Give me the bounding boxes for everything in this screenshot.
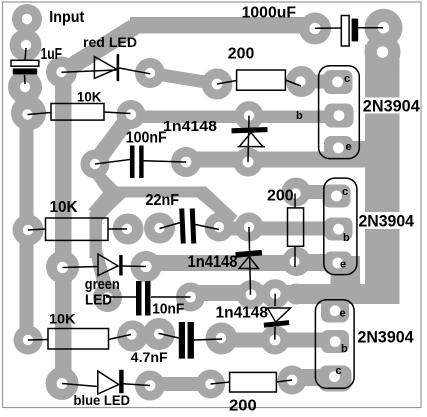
svg-text:1000uF: 1000uF <box>242 5 297 22</box>
svg-text:blue LED: blue LED <box>74 393 131 408</box>
svg-text:22nF: 22nF <box>146 192 180 209</box>
svg-text:red LED: red LED <box>83 35 137 50</box>
svg-text:10nF: 10nF <box>152 302 184 318</box>
svg-text:e: e <box>340 308 346 320</box>
svg-text:b: b <box>341 343 348 355</box>
svg-text:1n4148: 1n4148 <box>163 119 217 135</box>
svg-text:green: green <box>85 277 120 293</box>
svg-text:10K: 10K <box>77 90 102 105</box>
svg-text:1n4148: 1n4148 <box>188 252 238 271</box>
svg-text:c: c <box>344 73 350 85</box>
svg-text:200: 200 <box>229 398 257 415</box>
svg-text:1uF: 1uF <box>41 46 63 63</box>
svg-text:b: b <box>296 110 303 122</box>
svg-text:Input: Input <box>49 9 84 26</box>
svg-text:b: b <box>343 232 350 244</box>
svg-text:10K: 10K <box>49 311 76 326</box>
svg-text:LED: LED <box>85 293 112 309</box>
svg-text:1n4148: 1n4148 <box>216 305 269 322</box>
svg-text:100nF: 100nF <box>126 130 167 147</box>
svg-text:200: 200 <box>228 46 255 63</box>
svg-text:c: c <box>342 186 348 198</box>
svg-text:10K: 10K <box>50 199 79 216</box>
svg-text:2N3904: 2N3904 <box>363 98 420 116</box>
svg-text:e: e <box>340 259 346 271</box>
svg-text:2N3904: 2N3904 <box>359 213 415 231</box>
svg-text:c: c <box>336 365 342 377</box>
svg-text:4.7nF: 4.7nF <box>131 349 168 365</box>
svg-text:e: e <box>346 141 352 153</box>
svg-text:2N3904: 2N3904 <box>358 329 414 347</box>
svg-text:200: 200 <box>267 188 294 205</box>
